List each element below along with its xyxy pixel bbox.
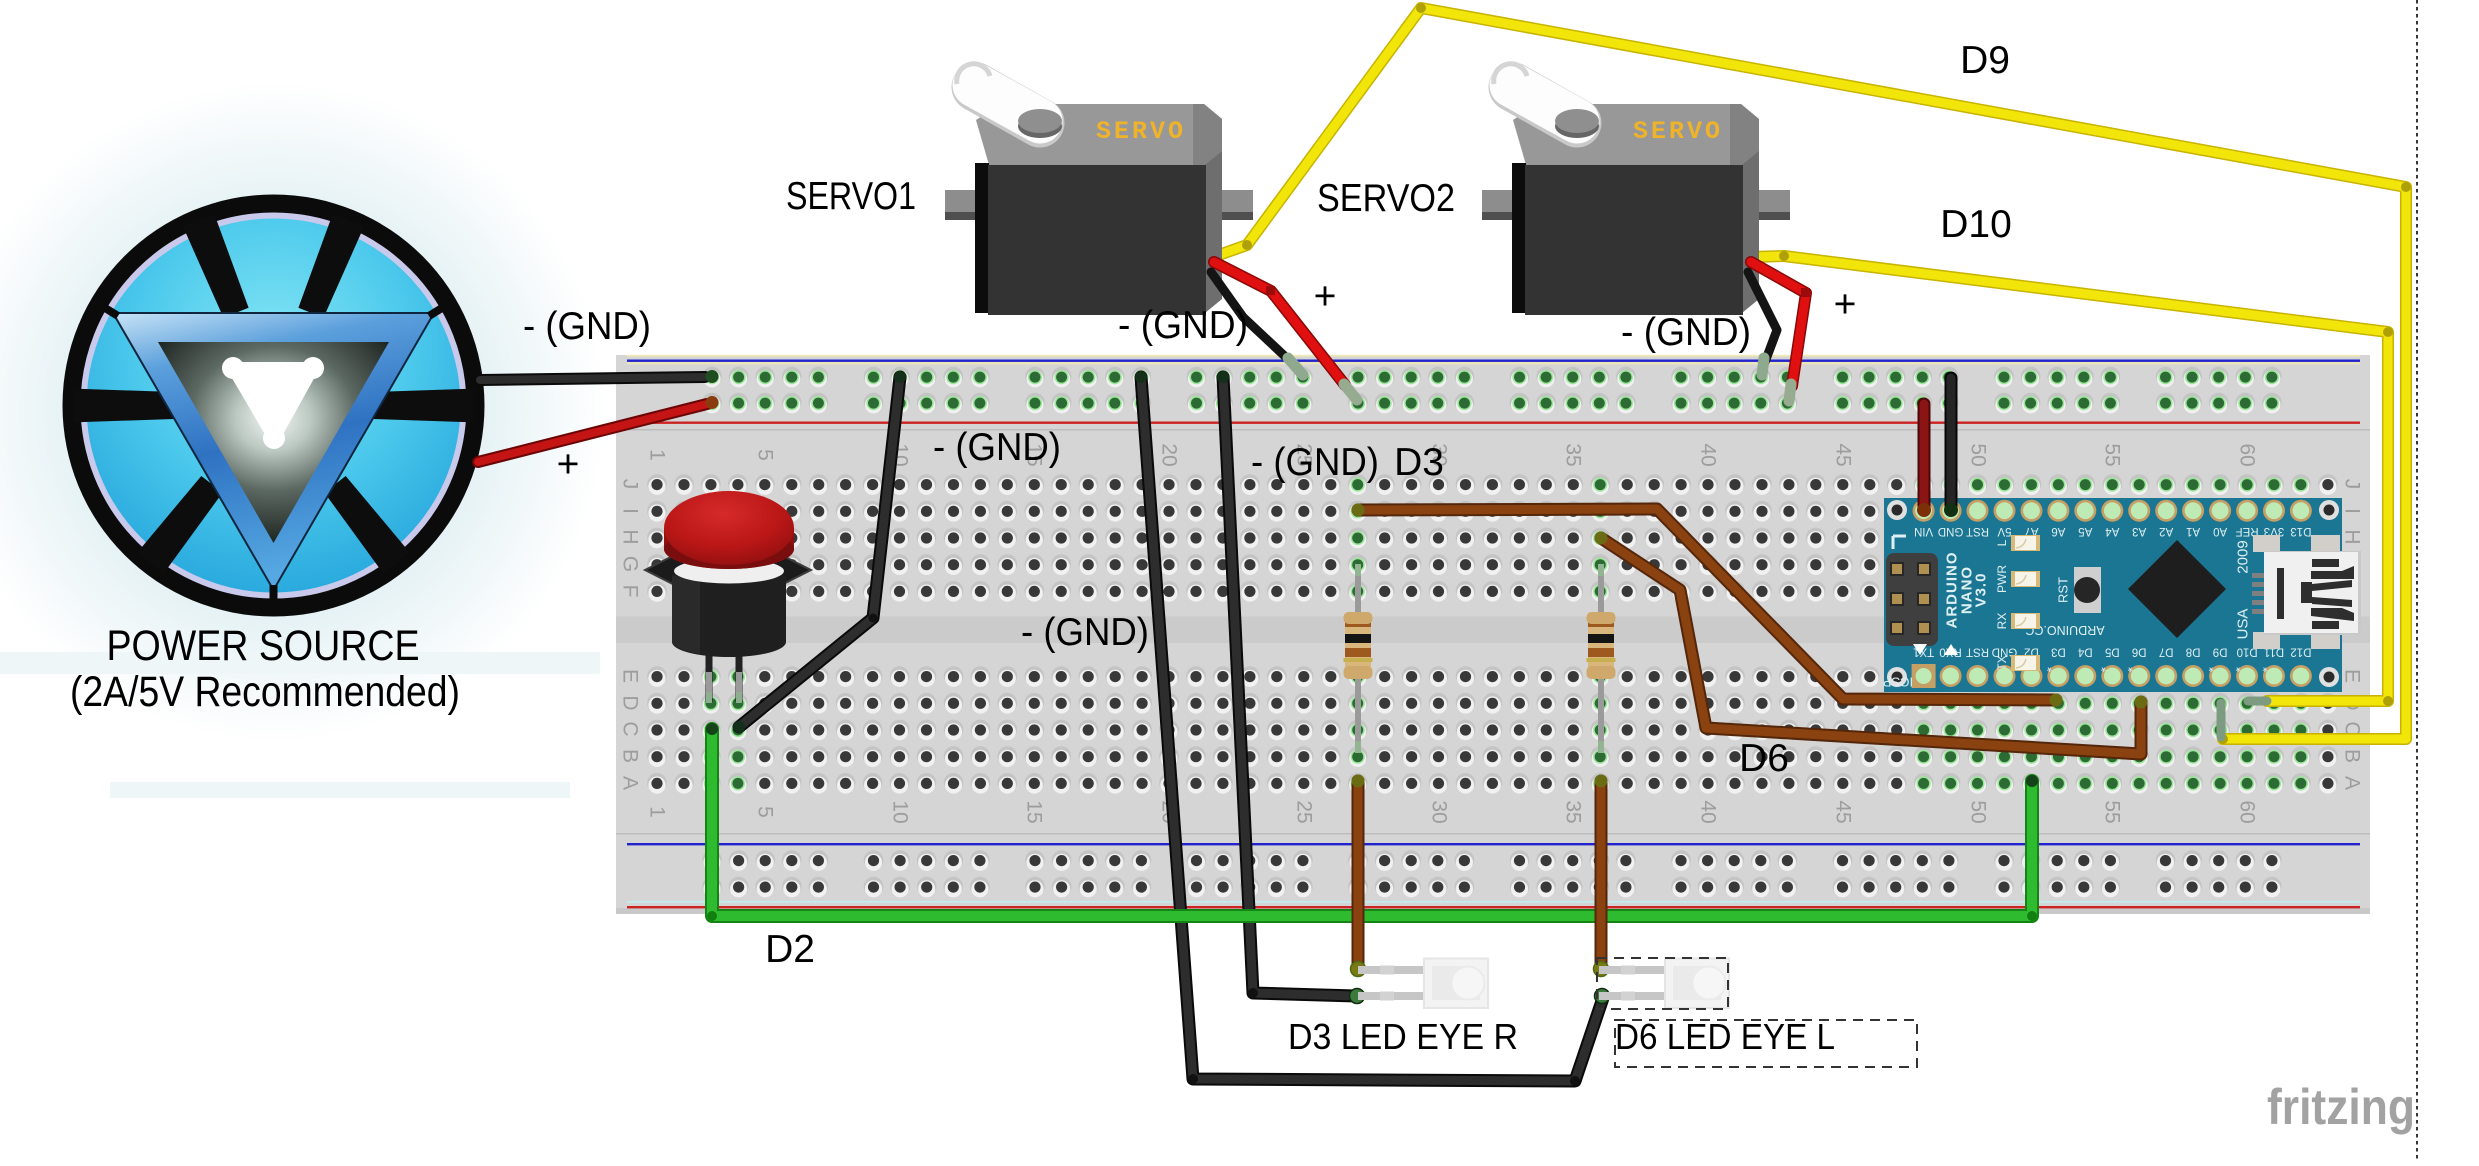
svg-text:D3: D3 bbox=[2051, 646, 2066, 658]
wire brown LED D6 anode bbox=[1595, 781, 1608, 968]
svg-text:+: + bbox=[1314, 275, 1337, 318]
svg-text:D12: D12 bbox=[2290, 646, 2311, 658]
svg-text:1: 1 bbox=[646, 806, 669, 818]
svg-text:H: H bbox=[2341, 529, 2364, 544]
wire brown D3 bbox=[1358, 509, 2056, 700]
svg-text:*: * bbox=[2209, 660, 2214, 675]
svg-text:RST: RST bbox=[2056, 577, 2071, 603]
svg-text:15: 15 bbox=[1023, 800, 1046, 823]
svg-text:PWR: PWR bbox=[1995, 565, 2009, 593]
bottom rail red line bbox=[627, 901, 2360, 903]
svg-text:+: + bbox=[1834, 283, 1857, 326]
arduino nano U1 bbox=[1884, 498, 2342, 692]
svg-text:5V: 5V bbox=[1997, 525, 2011, 537]
svg-text:55: 55 bbox=[2101, 443, 2124, 466]
servo1 red wire bbox=[1214, 262, 1345, 385]
LED D6 (eye L) bbox=[1599, 970, 1669, 996]
svg-text:45: 45 bbox=[1832, 800, 1855, 823]
svg-text:D3: D3 bbox=[1394, 441, 1444, 484]
svg-text:*: * bbox=[2236, 660, 2241, 675]
svg-text:G: G bbox=[619, 556, 642, 572]
svg-text:D6 LED EYE L: D6 LED EYE L bbox=[1615, 1016, 1835, 1057]
svg-text:2009: 2009 bbox=[2235, 540, 2252, 573]
svg-text:- (GND): - (GND) bbox=[523, 305, 651, 348]
svg-text:B: B bbox=[619, 749, 642, 763]
svg-text:+: + bbox=[557, 443, 580, 486]
svg-text:J: J bbox=[619, 479, 642, 490]
svg-text:25: 25 bbox=[1293, 800, 1316, 823]
wire button black to rail bbox=[739, 377, 900, 727]
svg-text:GND: GND bbox=[1938, 525, 1964, 537]
svg-text:D7: D7 bbox=[2159, 646, 2174, 658]
pushbutton S1 bbox=[709, 640, 739, 702]
svg-text:A3: A3 bbox=[2132, 525, 2146, 537]
svg-text:RST: RST bbox=[1966, 525, 1989, 537]
wire brown LED D3 anode bbox=[1352, 781, 1365, 968]
svg-text:A2: A2 bbox=[2159, 525, 2173, 537]
svg-text:D8: D8 bbox=[2186, 646, 2201, 658]
svg-text:35: 35 bbox=[1562, 800, 1585, 823]
svg-text:D: D bbox=[619, 695, 642, 710]
svg-text:C: C bbox=[619, 721, 642, 736]
resistor R1 (D3) bbox=[1355, 564, 1361, 753]
wire black GND to LED D6 cathode bbox=[1141, 377, 1603, 1081]
svg-text:POWER SOURCE: POWER SOURCE bbox=[107, 622, 420, 670]
servo2 black wire bbox=[1748, 272, 1777, 362]
wire yellow D10 (servo2 signal) bbox=[1753, 256, 2388, 701]
nano MCU chip bbox=[2128, 540, 2226, 638]
svg-text:VIN: VIN bbox=[1914, 525, 1933, 537]
svg-text:- (GND): - (GND) bbox=[933, 426, 1061, 469]
svg-text:*: * bbox=[2262, 660, 2267, 675]
svg-text:20: 20 bbox=[1158, 443, 1181, 466]
svg-text:60: 60 bbox=[2236, 800, 2259, 823]
resistor R2 (D6) bbox=[1598, 564, 1604, 753]
svg-text:RX: RX bbox=[1995, 613, 2009, 630]
svg-text:I: I bbox=[619, 508, 642, 514]
svg-text:A4: A4 bbox=[2105, 525, 2120, 537]
svg-text:50: 50 bbox=[1967, 443, 1990, 466]
svg-text:TX: TX bbox=[1995, 655, 2009, 670]
svg-text:(2A/5V Recommended): (2A/5V Recommended) bbox=[70, 668, 460, 716]
svg-text:D5: D5 bbox=[2105, 646, 2120, 658]
svg-text:*: * bbox=[2047, 660, 2052, 675]
dashed boundary line bbox=[2416, 0, 2418, 1161]
svg-text:D13: D13 bbox=[2290, 525, 2311, 537]
svg-text:D3 LED EYE R: D3 LED EYE R bbox=[1288, 1016, 1518, 1057]
bottom rail blue line bbox=[627, 843, 2360, 845]
svg-text:SERVO: SERVO bbox=[1633, 117, 1723, 146]
wire brown D6 bbox=[1601, 538, 2141, 754]
wire green D2 bbox=[712, 729, 2032, 916]
svg-text:D2: D2 bbox=[765, 928, 815, 971]
svg-text:J: J bbox=[2341, 479, 2364, 490]
wire yellow D9 (servo1 signal) bbox=[1216, 8, 2406, 739]
svg-text:- (GND): - (GND) bbox=[1621, 311, 1751, 354]
svg-text:fritzing: fritzing bbox=[2267, 1079, 2415, 1135]
bottom power rail holes bbox=[702, 850, 722, 871]
servo1 black wire bbox=[1211, 272, 1291, 362]
svg-text:30: 30 bbox=[1428, 800, 1451, 823]
jumper stub D10 pin bbox=[2248, 697, 2267, 706]
svg-text:E: E bbox=[619, 669, 642, 683]
selection dashes LED D6 bbox=[1597, 958, 1728, 1009]
svg-text:H: H bbox=[619, 529, 642, 544]
svg-text:D4: D4 bbox=[2077, 646, 2092, 658]
svg-text:A: A bbox=[2341, 776, 2364, 790]
svg-text:1: 1 bbox=[646, 449, 669, 461]
main grid holes bbox=[647, 474, 667, 495]
top rail blue line bbox=[627, 360, 2360, 362]
nano LEDs bbox=[2011, 535, 2040, 551]
svg-text:SERVO1: SERVO1 bbox=[786, 175, 916, 218]
power source arc reactor logo bbox=[63, 195, 485, 617]
svg-text:50: 50 bbox=[1967, 800, 1990, 823]
servo SERVO2 bbox=[1513, 104, 1759, 165]
wire power red (+) bbox=[478, 404, 707, 462]
wire black nano GND bbox=[1945, 378, 1958, 509]
svg-text:60: 60 bbox=[2236, 443, 2259, 466]
jumper stub D9 pin bbox=[2217, 703, 2226, 737]
top rail red line bbox=[627, 422, 2360, 424]
svg-text:I: I bbox=[2341, 508, 2364, 514]
svg-text:- (GND): - (GND) bbox=[1118, 304, 1248, 347]
svg-text:A6: A6 bbox=[2051, 525, 2065, 537]
svg-text:A5: A5 bbox=[2078, 525, 2092, 537]
servo SERVO1 bbox=[976, 104, 1222, 165]
svg-text:5: 5 bbox=[754, 449, 777, 461]
wire red VIN bbox=[1918, 404, 1931, 509]
svg-text:35: 35 bbox=[1562, 443, 1585, 466]
svg-text:D9: D9 bbox=[1960, 39, 2010, 82]
svg-text:45: 45 bbox=[1832, 443, 1855, 466]
wire black GND to LED D3 cathode bbox=[1223, 377, 1356, 996]
nano reset button bbox=[2074, 567, 2101, 613]
svg-text:- (GND): - (GND) bbox=[1251, 441, 1379, 484]
svg-text:D6: D6 bbox=[2132, 646, 2147, 658]
svg-text:40: 40 bbox=[1697, 443, 1720, 466]
svg-text:ICSP: ICSP bbox=[1883, 675, 1913, 690]
breadboard bbox=[616, 355, 2370, 914]
svg-text:A: A bbox=[619, 776, 642, 790]
svg-text:D6: D6 bbox=[1739, 737, 1789, 780]
svg-text:- (GND): - (GND) bbox=[1021, 611, 1149, 654]
svg-text:A0: A0 bbox=[2213, 525, 2227, 537]
svg-text:RST: RST bbox=[1966, 646, 1989, 658]
svg-text:A1: A1 bbox=[2186, 525, 2200, 537]
svg-text:B: B bbox=[2341, 749, 2364, 763]
svg-text:55: 55 bbox=[2101, 800, 2124, 823]
wire power black (GND) bbox=[480, 377, 705, 380]
svg-text:*: * bbox=[2128, 660, 2133, 675]
svg-text:V3.0: V3.0 bbox=[1973, 573, 1990, 608]
svg-text:D10: D10 bbox=[1940, 203, 2012, 246]
svg-text:*: * bbox=[2101, 660, 2106, 675]
svg-text:10: 10 bbox=[889, 800, 912, 823]
nano mini-USB bbox=[2253, 535, 2280, 552]
nano ICSP header bbox=[1886, 553, 1938, 646]
svg-text:SERVO2: SERVO2 bbox=[1317, 177, 1455, 220]
servo2 red wire bbox=[1751, 262, 1806, 386]
svg-text:E: E bbox=[2341, 669, 2364, 683]
svg-text:F: F bbox=[619, 585, 642, 598]
svg-text:D9: D9 bbox=[2213, 646, 2228, 658]
svg-text:SERVO: SERVO bbox=[1096, 117, 1186, 146]
svg-text:5: 5 bbox=[754, 806, 777, 818]
top power rail holes bbox=[702, 367, 722, 388]
svg-text:L: L bbox=[1995, 539, 2009, 546]
LED D3 (eye R) bbox=[1358, 970, 1428, 996]
svg-text:USA: USA bbox=[2235, 609, 2252, 640]
svg-text:40: 40 bbox=[1697, 800, 1720, 823]
